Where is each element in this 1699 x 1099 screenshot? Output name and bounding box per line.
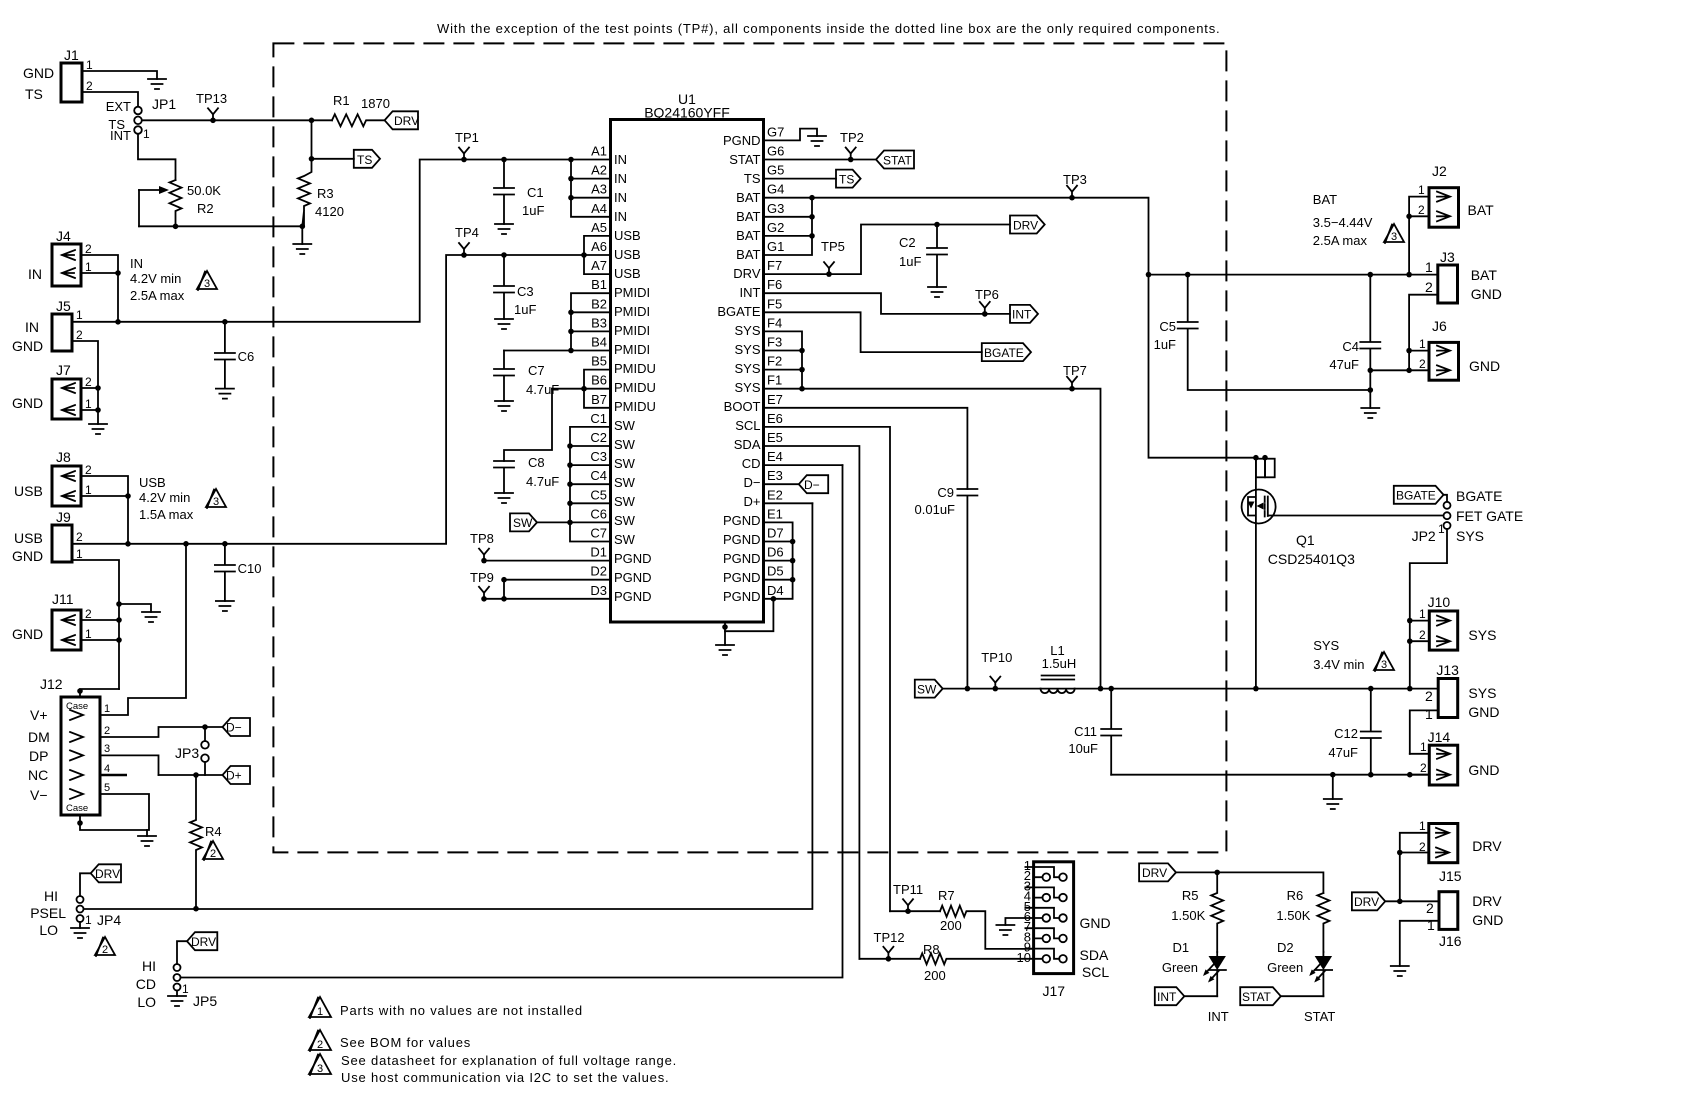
svg-text:D7: D7 xyxy=(767,526,784,541)
svg-text:F3: F3 xyxy=(767,335,782,350)
svg-text:SYS: SYS xyxy=(1456,528,1484,544)
svg-text:LO: LO xyxy=(137,994,156,1010)
svg-text:2: 2 xyxy=(1426,900,1434,916)
wire J5 pin2 down xyxy=(72,341,98,388)
wire GND rail (bottom right) xyxy=(1111,774,1429,776)
wire TS node down xyxy=(311,120,313,159)
wire U1 SYS pin group bus xyxy=(764,331,803,388)
svg-text:J11: J11 xyxy=(52,591,74,607)
ground (J17) xyxy=(996,925,1014,935)
wire BAT rail xyxy=(764,198,1438,275)
svg-text:SDA: SDA xyxy=(734,437,761,452)
svg-text:TP6: TP6 xyxy=(975,287,999,302)
wire J1 pin1 to ground xyxy=(82,71,157,79)
jumper JP4 xyxy=(30,888,121,938)
svg-text:GND: GND xyxy=(1471,286,1502,302)
svg-text:1.5A max: 1.5A max xyxy=(139,507,194,522)
wire J2 pins to BAT rail xyxy=(1409,197,1429,275)
svg-text:GND: GND xyxy=(12,626,43,642)
svg-text:2: 2 xyxy=(76,328,83,342)
svg-text:J3: J3 xyxy=(1440,249,1455,265)
svg-text:INT: INT xyxy=(1157,990,1177,1004)
net flag SW (L1) xyxy=(915,680,943,698)
ground (C4) xyxy=(1361,408,1379,418)
svg-text:HI: HI xyxy=(44,888,58,904)
svg-text:E5: E5 xyxy=(767,430,783,445)
wire BGATE flag to JP2 xyxy=(1444,495,1448,502)
svg-text:PGND: PGND xyxy=(723,513,761,528)
svg-text:Use host communication via I2C: Use host communication via I2C to set th… xyxy=(341,1070,669,1085)
wire DRV flag to J16 pin2 xyxy=(1385,900,1439,902)
svg-text:C7: C7 xyxy=(528,363,545,378)
svg-text:D+: D+ xyxy=(226,769,242,783)
ground (R3) xyxy=(293,244,311,254)
wire U1 G5 TS xyxy=(764,178,837,180)
svg-text:1: 1 xyxy=(104,703,110,715)
test point TP13 xyxy=(196,91,227,123)
svg-text:D−: D− xyxy=(744,475,761,490)
wire U1 E6 SCL down xyxy=(764,427,891,911)
svg-text:3: 3 xyxy=(213,496,219,508)
svg-text:IN: IN xyxy=(614,152,627,167)
svg-text:TP7: TP7 xyxy=(1063,363,1087,378)
connector J5 xyxy=(12,298,83,354)
svg-text:3: 3 xyxy=(204,278,210,290)
svg-text:TP11: TP11 xyxy=(893,882,923,897)
svg-text:C3: C3 xyxy=(517,284,534,299)
svg-text:J10: J10 xyxy=(1428,594,1451,610)
svg-text:JP2: JP2 xyxy=(1412,528,1436,544)
svg-text:1uF: 1uF xyxy=(899,254,921,269)
net flag TS (G5) xyxy=(836,170,861,188)
svg-text:NC: NC xyxy=(28,767,48,783)
svg-text:SCL: SCL xyxy=(735,418,760,433)
capacitor C10 xyxy=(215,544,262,601)
capacitor C6 xyxy=(215,322,254,389)
svg-text:STAT: STAT xyxy=(729,152,760,167)
wire J12 pin2 (DM) xyxy=(100,727,223,737)
svg-text:1: 1 xyxy=(143,127,150,141)
svg-text:J13: J13 xyxy=(1436,662,1459,678)
net flag DRV (R1) xyxy=(385,111,420,129)
wire BAT to Q1 drain xyxy=(1149,275,1256,458)
wire CD rail xyxy=(181,465,843,977)
wire U1 PMIDI pin group bus xyxy=(504,293,611,350)
svg-text:IN: IN xyxy=(25,319,39,335)
svg-text:B4: B4 xyxy=(591,335,607,350)
wire Q1 source to SYS rail xyxy=(1255,524,1257,689)
wire U1 USB pin group bus xyxy=(584,236,611,274)
wire J10 pins xyxy=(1410,621,1430,642)
svg-text:STAT: STAT xyxy=(1242,990,1272,1004)
wire J4 pins join xyxy=(81,255,118,322)
svg-text:GND: GND xyxy=(12,548,43,564)
svg-text:47uF: 47uF xyxy=(1329,357,1359,372)
svg-text:SW: SW xyxy=(614,418,636,433)
note triangle 3 xyxy=(309,1054,331,1075)
U1 right pin names xyxy=(717,133,760,604)
net flag D- (E3) xyxy=(799,475,828,493)
svg-text:1: 1 xyxy=(1425,706,1433,722)
svg-text:TS: TS xyxy=(839,173,854,187)
svg-text:F4: F4 xyxy=(767,315,782,330)
svg-text:USB: USB xyxy=(14,530,43,546)
svg-text:G3: G3 xyxy=(767,201,784,216)
svg-text:TP10: TP10 xyxy=(981,650,1012,665)
svg-text:STAT: STAT xyxy=(883,153,913,167)
svg-text:TS: TS xyxy=(25,86,43,102)
wire DRV LED rail xyxy=(1176,872,1323,893)
capacitor C12 47uF xyxy=(1328,686,1380,775)
svg-text:D2: D2 xyxy=(590,564,607,579)
wire J6 pins xyxy=(1370,351,1429,371)
svg-text:Parts with no values are not i: Parts with no values are not installed xyxy=(340,1003,583,1018)
svg-text:R5: R5 xyxy=(1182,888,1199,903)
svg-text:C4: C4 xyxy=(590,468,607,483)
svg-text:DRV: DRV xyxy=(394,114,419,128)
svg-text:SCL: SCL xyxy=(1082,964,1109,980)
ground (C2) xyxy=(928,287,946,297)
svg-text:USB: USB xyxy=(614,228,641,243)
svg-text:J9: J9 xyxy=(56,509,71,525)
connector J8 xyxy=(14,449,92,506)
svg-text:D4: D4 xyxy=(767,583,784,598)
svg-text:C6: C6 xyxy=(590,506,607,521)
wire SYS F1 rail xyxy=(764,389,1101,689)
svg-text:D+: D+ xyxy=(744,494,761,509)
svg-text:CD: CD xyxy=(136,976,156,992)
op-amp U1 BQ24160YFF body xyxy=(611,91,764,622)
svg-text:1.50K: 1.50K xyxy=(1171,908,1205,923)
jumper JP5 xyxy=(136,958,218,1010)
svg-text:2: 2 xyxy=(1425,279,1433,295)
svg-text:2: 2 xyxy=(85,242,92,256)
svg-text:V−: V− xyxy=(30,787,48,803)
svg-text:SYS: SYS xyxy=(734,361,760,376)
ground (C7) xyxy=(495,401,513,411)
svg-text:A1: A1 xyxy=(591,144,607,159)
wire J1 pin2 to JP1 xyxy=(82,92,138,107)
ground (U1) xyxy=(716,645,734,655)
svg-text:C5: C5 xyxy=(1159,319,1176,334)
svg-text:Case: Case xyxy=(66,803,88,814)
wire DRV flag to JP4 xyxy=(80,873,91,896)
wire JP1 TS pin to R1 xyxy=(142,119,332,121)
svg-text:1: 1 xyxy=(1427,917,1435,933)
svg-text:C1: C1 xyxy=(590,411,607,426)
svg-text:IN: IN xyxy=(614,171,627,186)
svg-text:C4: C4 xyxy=(1342,339,1359,354)
svg-text:4.7uF: 4.7uF xyxy=(526,474,559,489)
test point TP11 xyxy=(893,882,923,914)
svg-text:3.4V min: 3.4V min xyxy=(1313,657,1364,672)
svg-text:3.5−4.44V: 3.5−4.44V xyxy=(1313,215,1373,230)
svg-text:EXT: EXT xyxy=(106,99,131,114)
svg-text:V+: V+ xyxy=(30,707,48,723)
capacitor C3 1uF xyxy=(494,255,536,319)
svg-text:G7: G7 xyxy=(767,124,784,139)
connector J14 xyxy=(1420,729,1500,785)
svg-text:INT: INT xyxy=(740,285,761,300)
svg-text:F6: F6 xyxy=(767,277,782,292)
svg-text:C3: C3 xyxy=(590,449,607,464)
svg-text:SYS: SYS xyxy=(1468,685,1496,701)
svg-text:2: 2 xyxy=(1418,203,1425,217)
svg-text:1: 1 xyxy=(1419,337,1426,351)
svg-text:BGATE: BGATE xyxy=(1456,488,1502,504)
note triangle 3 (IN) xyxy=(197,271,217,290)
resistor R6 1.50K xyxy=(1276,888,1329,952)
svg-text:TS: TS xyxy=(357,153,372,167)
potentiometer R2 50.0K xyxy=(139,180,221,226)
svg-text:GND: GND xyxy=(1469,358,1500,374)
svg-text:TP9: TP9 xyxy=(470,570,494,585)
svg-text:IN: IN xyxy=(614,209,627,224)
svg-text:BQ24160YFF: BQ24160YFF xyxy=(644,105,730,121)
svg-text:JP4: JP4 xyxy=(97,912,121,928)
svg-text:1: 1 xyxy=(317,1006,323,1018)
net flag BGATE (F5) xyxy=(982,343,1031,361)
svg-text:INT: INT xyxy=(110,128,131,143)
svg-text:PGND: PGND xyxy=(614,551,652,566)
jumper JP3 xyxy=(175,727,209,775)
wire U1 SW pin group bus xyxy=(570,427,611,542)
wire R3 to ground xyxy=(301,226,303,244)
wire JP4 LO to ground xyxy=(79,922,81,928)
ground (J1 pin1) xyxy=(148,79,166,89)
svg-text:USB: USB xyxy=(14,483,43,499)
svg-text:G1: G1 xyxy=(767,239,784,254)
connector J12 xyxy=(28,676,110,815)
svg-text:PMIDU: PMIDU xyxy=(614,399,656,414)
svg-text:TP12: TP12 xyxy=(874,930,905,945)
resistor R7 200 xyxy=(938,888,1034,949)
svg-text:PMIDI: PMIDI xyxy=(614,323,650,338)
svg-text:A2: A2 xyxy=(591,163,607,178)
svg-text:2: 2 xyxy=(1425,688,1433,704)
net flag DRV (F7) xyxy=(1010,216,1045,234)
svg-text:J14: J14 xyxy=(1428,729,1451,745)
svg-text:J2: J2 xyxy=(1432,163,1447,179)
svg-text:4.2V min: 4.2V min xyxy=(130,271,181,286)
svg-text:TP8: TP8 xyxy=(470,531,494,546)
svg-text:BOOT: BOOT xyxy=(724,399,761,414)
connector J17 xyxy=(1017,858,1111,999)
svg-text:USB: USB xyxy=(614,266,641,281)
svg-text:E2: E2 xyxy=(767,487,783,502)
net flag D+ (J12) xyxy=(223,766,251,784)
svg-text:TP2: TP2 xyxy=(840,130,864,145)
svg-text:PGND: PGND xyxy=(723,589,761,604)
svg-text:SYS: SYS xyxy=(1313,638,1339,653)
svg-text:2: 2 xyxy=(102,944,108,956)
svg-text:SW: SW xyxy=(614,437,636,452)
svg-text:G4: G4 xyxy=(767,182,784,197)
resistor R8 200 xyxy=(920,942,1034,983)
svg-text:DRV: DRV xyxy=(733,266,761,281)
svg-text:1: 1 xyxy=(85,913,92,927)
svg-text:2: 2 xyxy=(210,848,216,860)
svg-text:1: 1 xyxy=(85,397,92,411)
svg-text:J17: J17 xyxy=(1043,983,1066,999)
svg-text:2: 2 xyxy=(317,1039,323,1051)
svg-text:DRV: DRV xyxy=(1013,218,1038,232)
label SYS net xyxy=(1313,638,1364,672)
svg-text:BAT: BAT xyxy=(736,209,760,224)
svg-text:2: 2 xyxy=(85,375,92,389)
wire J12 pin5 (V-) to ground xyxy=(80,794,149,830)
svg-text:B2: B2 xyxy=(591,296,607,311)
wire to ground (J11) xyxy=(119,604,151,612)
svg-text:E1: E1 xyxy=(767,506,783,521)
svg-text:2: 2 xyxy=(104,725,110,737)
svg-text:1: 1 xyxy=(85,260,92,274)
label USB net xyxy=(139,475,194,522)
svg-text:HI: HI xyxy=(142,958,156,974)
svg-text:4.2V min: 4.2V min xyxy=(139,490,190,505)
svg-text:B1: B1 xyxy=(591,277,607,292)
wire J16 pin1 to ground xyxy=(1400,921,1439,966)
resistor R1 1870 xyxy=(332,93,390,126)
test point TP6 xyxy=(975,287,999,317)
svg-text:1uF: 1uF xyxy=(514,302,536,317)
wire U1 G6 STAT xyxy=(764,159,877,161)
U1 left pin numbers xyxy=(590,144,607,598)
svg-text:R6: R6 xyxy=(1287,888,1304,903)
ground (G7) xyxy=(808,136,826,146)
note triangle 3 (SYS) xyxy=(1374,652,1394,671)
svg-text:IN: IN xyxy=(614,190,627,205)
ground (C6) xyxy=(216,389,234,399)
U1 right pin numbers xyxy=(767,124,784,597)
svg-text:4120: 4120 xyxy=(315,204,344,219)
svg-text:FET GATE: FET GATE xyxy=(1456,508,1523,524)
wire SCL to R7 xyxy=(890,910,940,912)
capacitor C1 1uF xyxy=(494,160,544,225)
wire J3 pin2 to J6 xyxy=(1409,295,1438,371)
wire D2 cathode to STAT flag xyxy=(1281,995,1324,997)
svg-text:TP4: TP4 xyxy=(455,225,479,240)
svg-text:1: 1 xyxy=(85,627,92,641)
note triangle 2 (R4) xyxy=(203,841,223,860)
test point TP3 xyxy=(1063,172,1087,201)
svg-text:1uF: 1uF xyxy=(522,203,544,218)
ground (C3) xyxy=(495,319,513,329)
svg-text:Green: Green xyxy=(1162,960,1198,975)
svg-text:B5: B5 xyxy=(591,354,607,369)
svg-text:TP1: TP1 xyxy=(455,130,479,145)
net flag D- (J12) xyxy=(223,718,251,736)
test point TP8 xyxy=(470,531,494,563)
svg-text:C12: C12 xyxy=(1334,726,1358,741)
svg-text:2.5A max: 2.5A max xyxy=(130,288,185,303)
svg-text:F7: F7 xyxy=(767,258,782,273)
wire J12 pin1 to USB rail xyxy=(100,544,186,715)
test point TP9 xyxy=(470,570,494,602)
svg-text:C6: C6 xyxy=(238,349,255,364)
test point TP12 xyxy=(874,930,905,962)
svg-text:J15: J15 xyxy=(1439,868,1462,884)
U1 left pin names xyxy=(614,152,656,604)
svg-text:1: 1 xyxy=(85,483,92,497)
svg-text:IN: IN xyxy=(130,256,143,271)
svg-text:E7: E7 xyxy=(767,392,783,407)
svg-text:J7: J7 xyxy=(56,362,71,378)
svg-text:Green: Green xyxy=(1267,960,1303,975)
svg-text:DRV: DRV xyxy=(191,935,216,949)
svg-text:Q1: Q1 xyxy=(1296,532,1315,548)
wire U1 PGND right bus xyxy=(764,522,793,598)
svg-text:2: 2 xyxy=(76,530,83,544)
svg-text:2: 2 xyxy=(85,607,92,621)
test point TP2 xyxy=(840,130,864,162)
svg-text:GND: GND xyxy=(12,395,43,411)
node TS junction xyxy=(309,118,315,124)
connector J2 xyxy=(1418,163,1494,227)
svg-text:PMIDU: PMIDU xyxy=(614,380,656,395)
svg-text:A5: A5 xyxy=(591,220,607,235)
svg-text:1: 1 xyxy=(86,58,93,72)
svg-text:PGND: PGND xyxy=(723,532,761,547)
ground (J7) xyxy=(89,424,107,434)
jumper JP1 xyxy=(106,96,177,143)
svg-text:F1: F1 xyxy=(767,373,782,388)
svg-text:DRV: DRV xyxy=(1472,893,1502,909)
ground (J16) xyxy=(1391,966,1409,976)
svg-text:GND: GND xyxy=(1472,912,1503,928)
svg-text:1: 1 xyxy=(1425,259,1433,275)
svg-text:BAT: BAT xyxy=(1468,202,1495,218)
wire JP5 LO to ground xyxy=(176,991,178,997)
svg-text:1: 1 xyxy=(1418,183,1425,197)
wire J9 pin1 down xyxy=(72,560,119,689)
svg-text:3: 3 xyxy=(1391,231,1397,243)
ground (J11) xyxy=(142,612,160,622)
wire J12 case top xyxy=(80,689,119,697)
svg-text:GND: GND xyxy=(23,65,54,81)
wire J11 pins to rail xyxy=(81,620,119,640)
svg-text:R1: R1 xyxy=(333,93,350,108)
svg-text:USB: USB xyxy=(139,475,166,490)
svg-text:J5: J5 xyxy=(56,298,71,314)
capacitor C5 1uF xyxy=(1154,272,1371,390)
svg-text:DRV: DRV xyxy=(1142,866,1167,880)
test point TP10 xyxy=(981,650,1012,691)
net flag TS (R3) xyxy=(354,150,380,168)
capacitor C2 1uF xyxy=(899,222,947,287)
svg-text:D3: D3 xyxy=(590,583,607,598)
svg-text:DP: DP xyxy=(29,748,48,764)
wire D4 to U1 ground xyxy=(725,599,773,631)
connector J11 xyxy=(12,591,92,650)
wire U1 F5 BGATE xyxy=(764,312,982,352)
svg-text:10: 10 xyxy=(1017,950,1031,965)
svg-text:See BOM for values: See BOM for values xyxy=(340,1035,471,1050)
wire U1 E5 SDA down xyxy=(764,446,860,959)
svg-text:With the exception of the test: With the exception of the test points (T… xyxy=(437,21,1220,36)
wire DRV flag to JP5 xyxy=(177,941,187,964)
svg-text:CSD25401Q3: CSD25401Q3 xyxy=(1268,551,1355,567)
svg-text:D−: D− xyxy=(804,478,820,492)
svg-text:B7: B7 xyxy=(591,392,607,407)
svg-text:DM: DM xyxy=(28,729,50,745)
svg-text:D6: D6 xyxy=(767,545,784,560)
svg-text:SW: SW xyxy=(614,494,636,509)
svg-text:PGND: PGND xyxy=(723,551,761,566)
wire IN rail to U1 xyxy=(72,160,571,322)
svg-text:TP3: TP3 xyxy=(1063,172,1087,187)
wire SDA to R8 xyxy=(859,958,920,960)
